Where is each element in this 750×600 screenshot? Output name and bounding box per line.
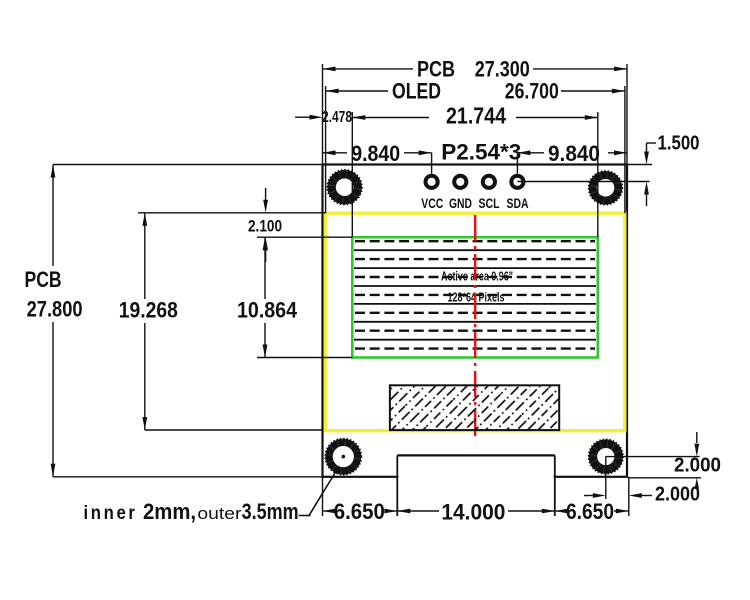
svg-text:3.5mm: 3.5mm xyxy=(242,499,299,524)
label P2.54*3 xyxy=(441,139,521,164)
svg-text:GND: GND xyxy=(449,195,472,211)
svg-text:21.744: 21.744 xyxy=(446,103,506,129)
dimension 6.650 left xyxy=(323,477,398,524)
pin hole SDA xyxy=(511,176,523,188)
dimension 1.500 xyxy=(517,133,699,207)
svg-text:Active area 0.96": Active area 0.96" xyxy=(441,270,513,284)
PCB board outline xyxy=(323,165,628,477)
dimension 9.840 left xyxy=(323,141,432,174)
dimension 2.478 xyxy=(295,109,352,126)
svg-text:2.478: 2.478 xyxy=(322,109,352,126)
dimension 2.000 (hole center to board bottom) xyxy=(606,432,721,489)
svg-text:inner: inner xyxy=(84,503,138,524)
dimension 19.268 xyxy=(119,213,326,430)
hatched region (driver/flex area) xyxy=(390,385,559,430)
dimension OLED 26.700 xyxy=(326,79,625,214)
pin label SCL xyxy=(479,195,500,211)
leader line to bottom-left hole xyxy=(299,468,338,516)
svg-text:OLED: OLED xyxy=(392,79,441,104)
red vertical centerline xyxy=(474,215,476,437)
pin hole SCL xyxy=(483,176,495,188)
svg-text:2.000: 2.000 xyxy=(674,455,721,477)
pin hole GND xyxy=(454,176,466,188)
pin label GND xyxy=(449,195,472,211)
svg-text:outer: outer xyxy=(197,504,241,523)
pin hole VCC xyxy=(426,176,438,188)
svg-text:19.268: 19.268 xyxy=(119,298,178,323)
svg-text:6.650: 6.650 xyxy=(566,499,614,524)
svg-text:14.000: 14.000 xyxy=(441,500,505,525)
svg-text:9.840: 9.840 xyxy=(548,141,600,166)
svg-text:1.500: 1.500 xyxy=(658,133,700,155)
svg-text:26.700: 26.700 xyxy=(505,79,559,104)
dimension 9.840 right xyxy=(517,141,627,174)
mounting hole bottom-right xyxy=(589,439,624,474)
svg-text:9.840: 9.840 xyxy=(351,141,400,166)
OLED active area outline (green) xyxy=(352,237,598,357)
svg-text:VCC: VCC xyxy=(421,195,443,211)
svg-text:SDA: SDA xyxy=(507,195,529,211)
mounting hole top-right xyxy=(589,171,623,205)
dimension 14.000 xyxy=(397,500,555,525)
pin label SDA xyxy=(507,195,529,211)
svg-text:2mm,: 2mm, xyxy=(143,499,196,524)
OLED glass outline (yellow) xyxy=(326,213,625,431)
active area pixel row lines xyxy=(354,241,596,348)
dimension 6.650 right xyxy=(555,477,629,524)
svg-text:2.100: 2.100 xyxy=(248,217,282,236)
dimension 2.000 (hole center to board edge) xyxy=(584,457,700,506)
active area label: Active area 0.96" xyxy=(441,270,513,284)
svg-text:2.000: 2.000 xyxy=(655,484,700,506)
dimension 2.100 xyxy=(248,188,282,262)
dimension PCB 27.800 (left) xyxy=(25,165,323,477)
svg-text:10.864: 10.864 xyxy=(237,298,298,323)
svg-text:P2.54*3: P2.54*3 xyxy=(441,139,521,164)
mounting hole bottom-left xyxy=(325,439,361,475)
dimension 21.744 xyxy=(352,103,598,238)
svg-text:6.650: 6.650 xyxy=(334,499,385,524)
pin label VCC xyxy=(421,195,443,211)
mounting hole top-left xyxy=(327,170,362,205)
svg-text:SCL: SCL xyxy=(479,195,500,211)
dimension 10.864 xyxy=(237,237,352,357)
svg-text:PCB: PCB xyxy=(25,267,62,292)
connector notch on bottom edge xyxy=(397,455,555,516)
dimension PCB 27.300 (top) xyxy=(323,57,628,165)
svg-text:27.800: 27.800 xyxy=(27,297,83,322)
active area label: 128*64 Pixels xyxy=(448,291,505,305)
hole size note: inner 2mm, outer 3.5mm xyxy=(84,499,299,524)
